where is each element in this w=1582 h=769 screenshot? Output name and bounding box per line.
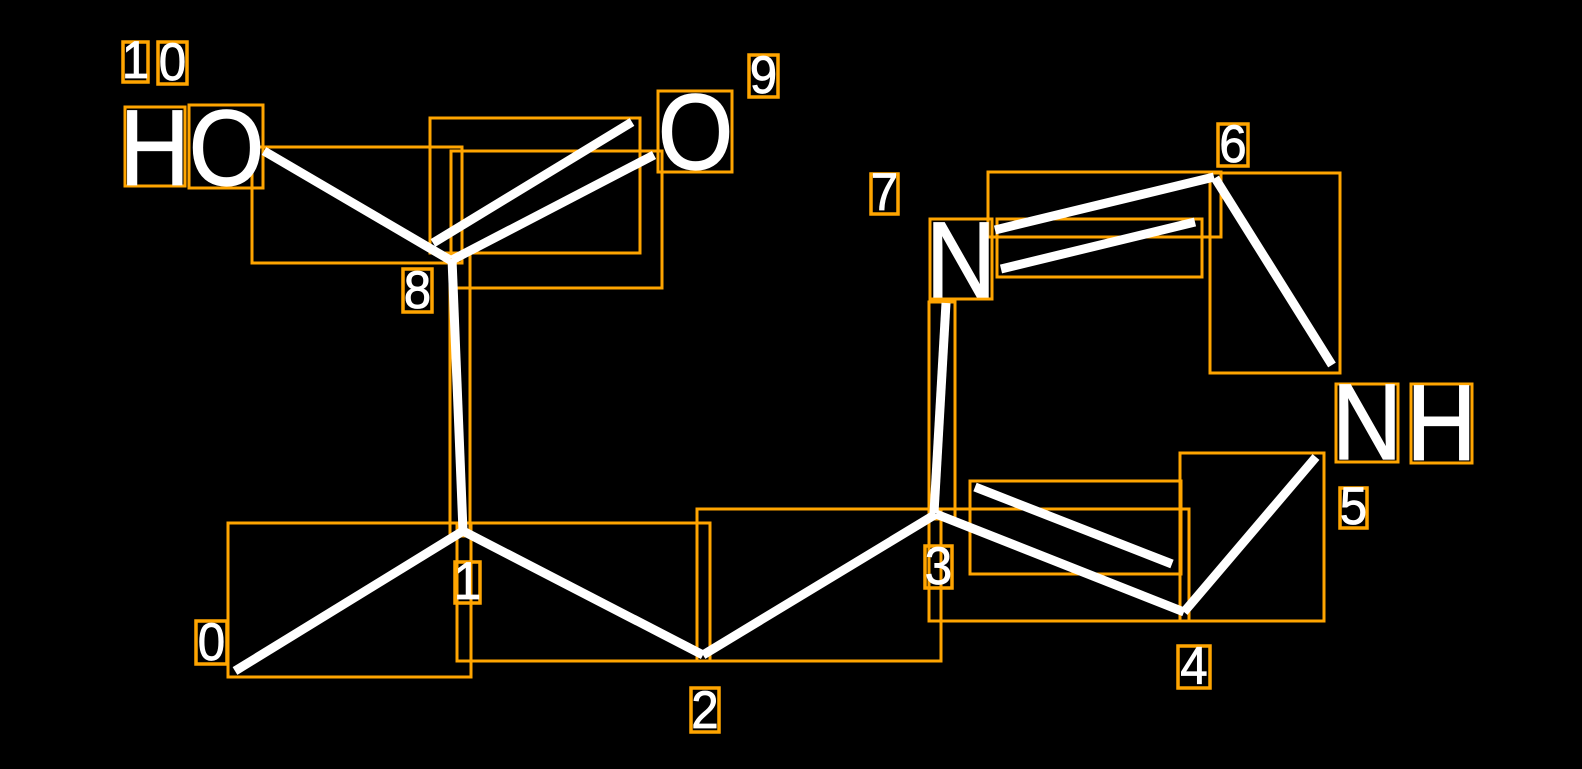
- index 10 box digit 0: [158, 42, 187, 84]
- bbox bond C8=O9 main line: [451, 151, 662, 288]
- index 5 box: [1340, 488, 1367, 528]
- svg-text:3: 3: [925, 536, 952, 595]
- bbox atom 7 N: [930, 219, 992, 299]
- bbox bond C1-C2: [457, 523, 710, 661]
- svg-text:2: 2: [691, 680, 718, 739]
- bbox atom 5 N: [1336, 384, 1398, 462]
- bond O10-C8: [264, 151, 450, 260]
- svg-text:7: 7: [871, 162, 898, 221]
- bond C2-C3: [703, 514, 936, 655]
- bbox bond C8=O9 inner line: [430, 118, 640, 253]
- bond N7-C3: [934, 303, 946, 513]
- index 9 box: [749, 55, 778, 97]
- bbox bond C0-C1: [228, 523, 471, 677]
- svg-text:N: N: [926, 199, 996, 320]
- index 10 box digit 1: [123, 42, 148, 82]
- bond C3=C4 inner line: [975, 487, 1172, 564]
- bbox bond C4-N5: [1180, 453, 1324, 621]
- bond C1-C8: [452, 259, 463, 531]
- svg-text:5: 5: [1340, 476, 1367, 535]
- index 6 box: [1218, 124, 1248, 166]
- svg-text:O: O: [189, 87, 265, 208]
- index 2 box: [691, 688, 719, 732]
- bbox bond C2-C3: [697, 509, 941, 661]
- bbox atom 10 H: [125, 107, 185, 186]
- index 1 box: [455, 562, 480, 603]
- bbox bond O10-C8: [252, 147, 462, 263]
- index 7 box: [871, 174, 898, 214]
- svg-text:N: N: [1332, 361, 1402, 482]
- bond C6=N7 main line: [995, 177, 1214, 230]
- bbox atom 10 O: [189, 105, 263, 188]
- svg-text:O: O: [658, 71, 734, 192]
- svg-text:0: 0: [198, 612, 225, 671]
- svg-text:1: 1: [122, 30, 149, 89]
- bond C0-C1: [235, 531, 463, 671]
- svg-text:8: 8: [404, 260, 431, 319]
- index 0 box: [196, 621, 227, 664]
- bbox atom 5 H: [1411, 384, 1472, 463]
- index 4 box: [1178, 646, 1210, 688]
- bond C1-C2: [463, 531, 703, 655]
- bond C3=C4 main line: [936, 514, 1184, 612]
- bbox bond C6=N7 main line: [988, 172, 1221, 237]
- svg-text:9: 9: [750, 45, 777, 104]
- bbox bond C3=C4 inner line: [970, 481, 1181, 574]
- bond N5-C6: [1215, 178, 1332, 365]
- svg-text:1: 1: [454, 551, 481, 610]
- bbox bond C3=C4 main line: [929, 509, 1189, 621]
- bond C8=O9 inner line: [433, 122, 632, 243]
- bbox bond N7-C3: [929, 302, 955, 519]
- svg-text:0: 0: [159, 32, 186, 91]
- svg-text:4: 4: [1180, 636, 1207, 695]
- index 3 box: [925, 546, 952, 588]
- index 8 box: [403, 269, 432, 312]
- bbox bond C1-C8: [450, 253, 470, 536]
- bbox bond N5-C6: [1210, 173, 1340, 373]
- svg-text:H: H: [1406, 362, 1476, 483]
- bbox atom 9 O: [658, 91, 732, 172]
- bond C4-N5: [1184, 457, 1316, 612]
- bbox bond C6=N7 inner line: [997, 219, 1202, 277]
- svg-text:6: 6: [1219, 114, 1246, 173]
- svg-text:H: H: [120, 87, 190, 208]
- bond C8=O9 main line: [452, 155, 654, 260]
- bond C6=N7 inner line: [1001, 222, 1195, 269]
